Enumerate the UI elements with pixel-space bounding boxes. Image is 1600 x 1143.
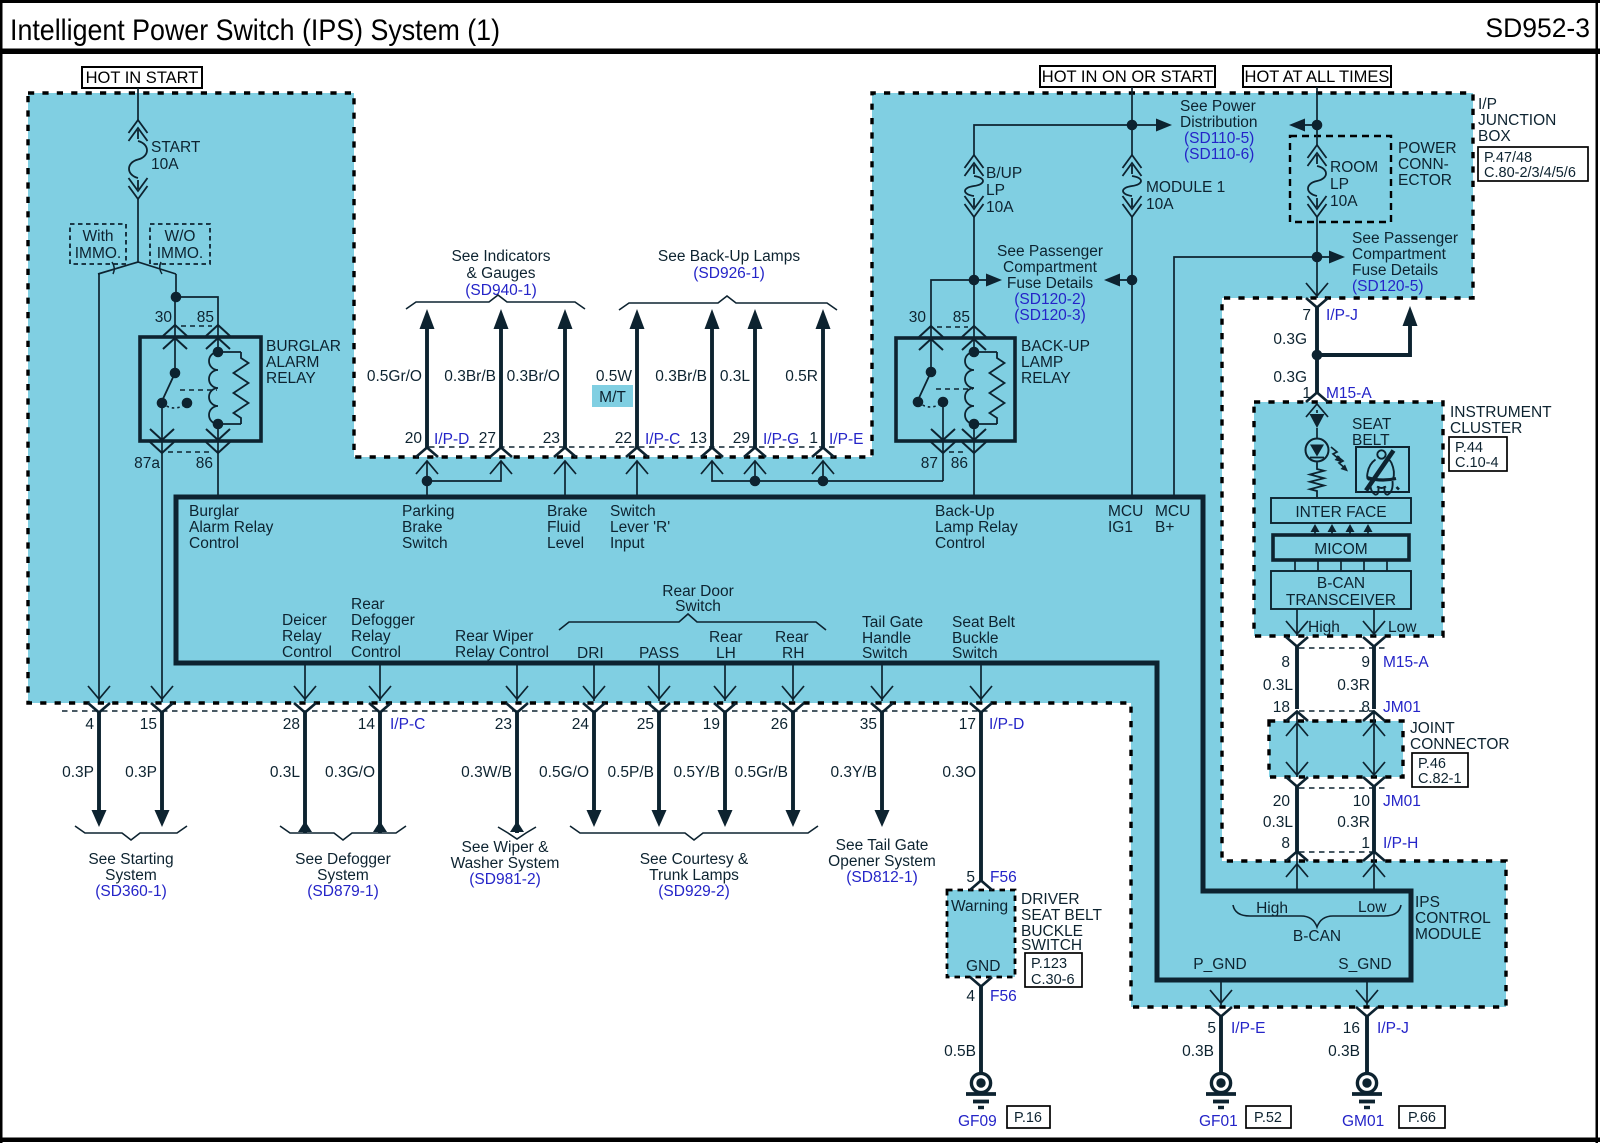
svg-text:GND: GND — [966, 958, 1000, 975]
svg-text:I/P-D: I/P-D — [434, 431, 469, 448]
svg-text:I/P-J: I/P-J — [1377, 1020, 1409, 1037]
brace starting system — [75, 826, 187, 840]
wire to courtesy lamps pin at x=594 — [592, 713, 596, 813]
svg-text:LH: LH — [716, 645, 736, 662]
svg-text:30: 30 — [155, 309, 173, 326]
burglar relay coil — [213, 347, 224, 358]
node back-up net junction 29 — [750, 476, 761, 487]
svg-text:(SD360-1): (SD360-1) — [95, 883, 167, 900]
svg-text:IG1: IG1 — [1108, 519, 1133, 536]
wire bay pin 29 (0.3L) — [748, 309, 763, 329]
svg-text:10: 10 — [1353, 793, 1371, 810]
svg-text:Rear: Rear — [775, 629, 809, 646]
arrow to see power distribution (right) — [1304, 124, 1317, 126]
wire W/O-IMMO branch to relay — [175, 274, 177, 297]
svg-text:P.16: P.16 — [1014, 1110, 1042, 1126]
svg-text:1: 1 — [809, 430, 818, 447]
wire branch up arrow to fuse details — [1317, 326, 1410, 355]
node SD120-5 junction — [1312, 252, 1323, 263]
B-CAN TRANSCEIVER box — [1271, 571, 1411, 609]
wire MODULE1 fuse to MCU IG1 — [1131, 217, 1133, 497]
svg-text:29: 29 — [733, 430, 750, 447]
burglar relay pin 30 — [163, 325, 187, 336]
svg-text:(SD981-2): (SD981-2) — [469, 871, 541, 888]
svg-text:LAMP: LAMP — [1021, 354, 1063, 371]
back-up relay top pin dashed strip — [937, 326, 968, 328]
diode symbol — [1316, 410, 1318, 413]
svg-text:INSTRUMENT: INSTRUMENT — [1450, 404, 1552, 421]
brace back-up lamps group — [619, 296, 837, 310]
svg-text:19: 19 — [703, 716, 720, 733]
svg-text:M15-A: M15-A — [1383, 654, 1429, 671]
brace courtesy lamps — [570, 826, 818, 840]
svg-text:See Starting: See Starting — [88, 851, 173, 868]
wire junction to pin 27 — [427, 462, 501, 481]
svg-text:IMMO.: IMMO. — [157, 245, 204, 262]
svg-text:Back-Up: Back-Up — [935, 503, 994, 520]
wire to starting system pin15 — [160, 713, 164, 813]
brace b-can — [1233, 905, 1401, 927]
svg-text:0.3Y/B: 0.3Y/B — [830, 764, 877, 781]
svg-text:P.52: P.52 — [1254, 1110, 1282, 1126]
svg-text:I/P-C: I/P-C — [390, 716, 425, 733]
svg-text:(SD110-6): (SD110-6) — [1184, 146, 1254, 163]
svg-text:RELAY: RELAY — [1021, 370, 1071, 387]
brace wiper system — [498, 827, 536, 839]
svg-text:(SD879-1): (SD879-1) — [307, 883, 379, 900]
svg-text:See Passenger: See Passenger — [997, 243, 1103, 260]
svg-text:8: 8 — [1361, 699, 1370, 716]
wire pin22 to switch lever R input — [636, 462, 638, 497]
svg-text:ECTOR: ECTOR — [1398, 172, 1452, 189]
svg-text:I/P-C: I/P-C — [645, 431, 680, 448]
interface-micom arrows — [1314, 531, 1316, 535]
svg-text:I/P-J: I/P-J — [1326, 307, 1358, 324]
node B/UP branch junction — [969, 275, 980, 286]
svg-text:& Gauges: & Gauges — [467, 265, 536, 282]
svg-text:0.3L: 0.3L — [270, 764, 301, 781]
wire bay pin 1 (0.5R) — [816, 309, 831, 329]
svg-text:Low: Low — [1388, 619, 1417, 636]
svg-text:20: 20 — [405, 430, 423, 447]
svg-text:MICOM: MICOM — [1314, 541, 1367, 558]
svg-text:0.3B: 0.3B — [1182, 1043, 1214, 1060]
svg-text:0.3P: 0.3P — [62, 764, 94, 781]
back-up relay resistor — [974, 351, 997, 353]
svg-text:Level: Level — [547, 535, 584, 552]
svg-text:23: 23 — [495, 716, 512, 733]
burglar relay top pin dashed strip — [181, 325, 212, 327]
svg-text:C.30-6: C.30-6 — [1031, 972, 1075, 988]
wire burglar 86 to IPS module (burglar alarm relay control) — [217, 454, 219, 497]
MICOM box — [1273, 535, 1409, 560]
wire branch to B/UP LP fuse — [974, 125, 1132, 155]
svg-text:Warning: Warning — [951, 898, 1008, 915]
svg-text:0.5G/O: 0.5G/O — [539, 764, 589, 781]
wire module output at x=380 — [379, 663, 381, 701]
wire back-up 86 to IPS module (back-up lamp relay control) — [973, 454, 975, 497]
svg-text:See Indicators: See Indicators — [451, 248, 550, 265]
node W/O branch junction — [171, 292, 182, 303]
svg-text:SD952-3: SD952-3 — [1485, 13, 1590, 43]
svg-text:SWITCH: SWITCH — [1021, 937, 1082, 954]
svg-text:0.3G/O: 0.3G/O — [325, 764, 375, 781]
svg-text:0.5Y/B: 0.5Y/B — [673, 764, 720, 781]
joint pin 20 crossing — [1286, 777, 1308, 787]
svg-text:0.3B: 0.3B — [1328, 1043, 1360, 1060]
back-up relay bottom pin dashed strip — [949, 451, 967, 453]
svg-text:15: 15 — [140, 716, 157, 733]
svg-text:See Power: See Power — [1180, 98, 1256, 115]
svg-text:28: 28 — [283, 716, 300, 733]
svg-text:C.80-2/3/4/5/6: C.80-2/3/4/5/6 — [1484, 165, 1576, 181]
svg-text:0.3L: 0.3L — [1263, 677, 1294, 694]
wire b-can low out — [1373, 609, 1375, 636]
ref box P.46 C.82-1 — [1412, 753, 1468, 787]
svg-text:High: High — [1308, 619, 1340, 636]
svg-text:See Courtesy &: See Courtesy & — [640, 851, 749, 868]
wire module output at x=981 — [980, 663, 982, 701]
svg-text:Alarm Relay: Alarm Relay — [189, 519, 274, 536]
svg-text:MCU: MCU — [1108, 503, 1143, 520]
page border frame — [0, 0, 1600, 3]
svg-text:Brake: Brake — [547, 503, 588, 520]
back-up lamp relay box — [896, 338, 1015, 441]
svg-text:System: System — [317, 867, 369, 884]
back-up relay pin 85 — [962, 326, 986, 337]
svg-text:0.3R: 0.3R — [1337, 677, 1370, 694]
svg-text:8: 8 — [1281, 654, 1290, 671]
svg-text:9: 9 — [1361, 654, 1370, 671]
wire SD120-5 junction to MCU B+ — [1174, 257, 1317, 497]
node module1 junction — [1127, 275, 1138, 286]
svg-text:86: 86 — [196, 455, 213, 472]
svg-text:0.3G: 0.3G — [1273, 331, 1307, 348]
svg-text:JUNCTION: JUNCTION — [1478, 112, 1556, 129]
wire module output at x=594 — [593, 663, 595, 701]
fuse ROOM LP 10A — [1308, 145, 1327, 158]
wire module output at x=305 — [304, 663, 306, 701]
svg-text:Compartment: Compartment — [1352, 246, 1447, 263]
cluster pin 8 crossing — [1286, 637, 1308, 647]
svg-text:IMMO.: IMMO. — [75, 245, 122, 262]
svg-text:87a: 87a — [134, 455, 160, 472]
power connector dashed border — [1290, 136, 1391, 222]
svg-text:Opener System: Opener System — [828, 853, 936, 870]
wire room fuse down — [1316, 217, 1318, 298]
svg-text:CONTROL: CONTROL — [1415, 910, 1491, 927]
svg-text:0.5Gr/B: 0.5Gr/B — [735, 764, 788, 781]
wire bay pin 13 (0.3Br/B) — [705, 309, 720, 329]
svg-text:MCU: MCU — [1155, 503, 1190, 520]
micom-bcan ticks — [1294, 560, 1296, 571]
svg-text:26: 26 — [771, 716, 788, 733]
svg-text:Control: Control — [189, 535, 239, 552]
svg-text:GF01: GF01 — [1199, 1113, 1238, 1130]
node room lp junction — [1312, 120, 1323, 131]
svg-text:4: 4 — [85, 716, 94, 733]
svg-text:P.47/48: P.47/48 — [1484, 150, 1532, 166]
svg-text:0.5B: 0.5B — [944, 1043, 976, 1060]
pin 4 F56 — [970, 977, 992, 987]
svg-text:BURGLAR: BURGLAR — [266, 338, 341, 355]
wire bay pin 22 (0.5W) — [630, 309, 645, 329]
svg-text:Compartment: Compartment — [1003, 259, 1098, 276]
ref box P.52 — [1246, 1106, 1291, 1128]
svg-text:Parking: Parking — [402, 503, 455, 520]
svg-text:Control: Control — [282, 644, 332, 661]
svg-text:MODULE: MODULE — [1415, 926, 1481, 943]
svg-text:Input: Input — [610, 535, 645, 552]
svg-text:GF09: GF09 — [958, 1113, 997, 1130]
wire module output at x=793 — [792, 663, 794, 701]
wire junction to burglar relay pin 85 — [176, 297, 218, 352]
svg-text:P.123: P.123 — [1031, 956, 1067, 972]
svg-text:W/O: W/O — [165, 228, 196, 245]
joint connector shaded region — [1269, 721, 1403, 777]
svg-text:ALARM: ALARM — [266, 354, 319, 371]
svg-text:25: 25 — [637, 716, 654, 733]
svg-text:22: 22 — [615, 430, 632, 447]
svg-text:0.3O: 0.3O — [942, 764, 976, 781]
wire to courtesy lamps pin at x=793 — [791, 713, 795, 813]
svg-text:System: System — [105, 867, 157, 884]
svg-text:F56: F56 — [990, 988, 1017, 1005]
svg-text:CONNECTOR: CONNECTOR — [1410, 736, 1510, 753]
HOT IN START label box — [82, 67, 202, 88]
svg-text:TRANSCEIVER: TRANSCEIVER — [1286, 592, 1396, 609]
instrument cluster dashed border — [1254, 402, 1443, 636]
brace rear door switch — [559, 614, 826, 630]
svg-text:Defogger: Defogger — [351, 612, 415, 629]
svg-text:Intelligent Power Switch (IPS): Intelligent Power Switch (IPS) System (1… — [10, 14, 500, 47]
svg-text:B+: B+ — [1155, 519, 1174, 536]
svg-text:Switch: Switch — [675, 598, 721, 615]
svg-text:(SD120-2): (SD120-2) — [1014, 291, 1086, 308]
svg-text:See Wiper &: See Wiper & — [461, 839, 549, 856]
svg-text:CLUSTER: CLUSTER — [1450, 420, 1522, 437]
svg-text:(SD120-5): (SD120-5) — [1352, 278, 1424, 295]
svg-text:Lever 'R': Lever 'R' — [610, 519, 670, 536]
svg-text:85: 85 — [197, 309, 214, 326]
svg-text:Relay: Relay — [282, 628, 322, 645]
svg-text:Relay: Relay — [351, 628, 391, 645]
fuse START 10A — [129, 120, 148, 133]
svg-text:0.3Br/B: 0.3Br/B — [655, 368, 707, 385]
brace indicators group — [406, 295, 585, 309]
connector row JM01 lower dashed — [1299, 787, 1388, 789]
svg-text:JOINT: JOINT — [1410, 720, 1455, 737]
wire to tail gate opener pin35 — [880, 713, 884, 813]
wire bay pin 27 (0.3Br/B) — [494, 309, 509, 329]
svg-text:I/P-G: I/P-G — [763, 431, 799, 448]
fuse MODULE1 10A — [1123, 155, 1142, 168]
ref box P.44 C.10-4 — [1449, 437, 1507, 471]
svg-text:B/UP: B/UP — [986, 165, 1022, 182]
wire b-can high out — [1296, 609, 1298, 636]
node back-up net junction 1 — [818, 476, 829, 487]
wire burglar 87a down to pin 15 — [161, 454, 163, 702]
svg-text:Switch: Switch — [610, 503, 656, 520]
svg-text:Control: Control — [935, 535, 985, 552]
wire With-IMMO branch down to pin 4 — [98, 274, 100, 702]
ground GF01 — [1211, 1073, 1230, 1092]
svg-text:Fluid: Fluid — [547, 519, 581, 536]
svg-text:JM01: JM01 — [1383, 793, 1421, 810]
svg-text:(SD120-3): (SD120-3) — [1014, 307, 1086, 324]
svg-text:SEAT BELT: SEAT BELT — [1021, 907, 1103, 924]
svg-text:GM01: GM01 — [1342, 1113, 1384, 1130]
svg-text:B-CAN: B-CAN — [1317, 575, 1365, 592]
svg-text:27: 27 — [479, 430, 496, 447]
svg-text:7: 7 — [1302, 307, 1311, 324]
burglar relay pin 87a — [161, 403, 163, 454]
svg-text:Rear Wiper: Rear Wiper — [455, 628, 533, 645]
wire 0.3L cluster-joint — [1295, 647, 1299, 710]
wire S_GND out — [1366, 980, 1368, 1006]
wire fuse START to IMMO fork — [137, 199, 139, 262]
wire 0.3L joint-module — [1295, 787, 1299, 853]
wire bay pin 20 (0.5Gr/O) — [420, 309, 435, 329]
svg-text:P.66: P.66 — [1408, 1110, 1436, 1126]
svg-text:START: START — [151, 139, 201, 156]
svg-text:Rear: Rear — [351, 596, 385, 613]
burglar relay resistor — [218, 351, 241, 353]
svg-text:30: 30 — [909, 309, 927, 326]
svg-text:Fuse Details: Fuse Details — [1007, 275, 1093, 292]
ground GM01 — [1357, 1073, 1376, 1092]
svg-text:Fuse Details: Fuse Details — [1352, 262, 1438, 279]
driver seat belt buckle switch shaded region — [947, 890, 1015, 977]
svg-text:DRIVER: DRIVER — [1021, 891, 1080, 908]
wire to defogger system pin14 — [378, 713, 382, 834]
wire to defogger system pin28 — [303, 713, 307, 834]
svg-text:8: 8 — [1281, 835, 1290, 852]
svg-text:0.5R: 0.5R — [785, 368, 818, 385]
svg-text:14: 14 — [358, 716, 376, 733]
wire B/UP fuse to back-up relay pin 85 — [973, 217, 975, 352]
svg-text:I/P-E: I/P-E — [1231, 1020, 1265, 1037]
svg-text:0.3W/B: 0.3W/B — [461, 764, 512, 781]
svg-text:5: 5 — [966, 869, 975, 886]
joint connector internal wires — [1296, 712, 1298, 778]
M/T highlight chip — [592, 385, 633, 407]
svg-text:Low: Low — [1358, 899, 1387, 916]
pin 7 I/P-J crossing — [1306, 283, 1328, 296]
svg-text:0.3L: 0.3L — [720, 368, 751, 385]
svg-text:P.46: P.46 — [1418, 756, 1446, 772]
wire from HOT IN START to fuse START — [137, 88, 139, 120]
svg-text:LP: LP — [1330, 176, 1349, 193]
svg-text:CONN-: CONN- — [1398, 156, 1449, 173]
fuse B/UP LP 10A — [965, 155, 984, 168]
svg-text:0.3G: 0.3G — [1273, 369, 1307, 386]
svg-text:0.5W: 0.5W — [596, 368, 633, 385]
wire P_GND out — [1220, 980, 1222, 1006]
svg-text:35: 35 — [860, 716, 877, 733]
svg-text:P_GND: P_GND — [1193, 956, 1246, 973]
cluster feed pin crossing — [1306, 393, 1328, 403]
svg-text:IPS: IPS — [1415, 894, 1440, 911]
svg-text:BOX: BOX — [1478, 128, 1511, 145]
svg-text:ROOM: ROOM — [1330, 159, 1378, 176]
I/P junction box main shaded region — [28, 93, 1506, 1007]
wire pin15 crossing — [151, 686, 173, 699]
svg-text:Deicer: Deicer — [282, 612, 327, 629]
wire low into IPS module — [1373, 852, 1375, 892]
svg-text:HOT IN ON OR START: HOT IN ON OR START — [1042, 68, 1213, 86]
back-up relay pin 30 — [919, 326, 943, 337]
burglar relay pin 86 — [217, 424, 219, 454]
svg-text:F56: F56 — [990, 869, 1017, 886]
svg-text:17: 17 — [959, 716, 976, 733]
svg-text:Seat Belt: Seat Belt — [952, 614, 1016, 631]
svg-text:86: 86 — [951, 455, 968, 472]
svg-text:Switch: Switch — [862, 645, 908, 662]
svg-text:Distribution: Distribution — [1180, 114, 1258, 131]
HOT AT ALL TIMES label box — [1243, 66, 1391, 87]
svg-text:Rear: Rear — [709, 629, 743, 646]
arrow to passenger fuse details left — [974, 279, 987, 281]
svg-text:RELAY: RELAY — [266, 370, 316, 387]
wire 0.3G to cluster — [1315, 308, 1319, 394]
wire bay pin 23 (0.3Br/O) — [558, 309, 573, 329]
wire pin23 to brake fluid input — [564, 462, 566, 497]
svg-text:10A: 10A — [151, 156, 179, 173]
burglar relay switch — [170, 368, 181, 379]
svg-text:SEAT: SEAT — [1352, 416, 1392, 433]
svg-text:Switch: Switch — [402, 535, 448, 552]
IPS control module box — [176, 497, 1411, 980]
svg-text:LP: LP — [986, 182, 1005, 199]
svg-text:(SD926-1): (SD926-1) — [693, 265, 765, 282]
main region dashed border — [28, 93, 1506, 1007]
svg-text:16: 16 — [1343, 1020, 1360, 1037]
wire pin4 crossing — [88, 686, 110, 699]
svg-text:BACK-UP: BACK-UP — [1021, 338, 1090, 355]
svg-text:0.5P/B: 0.5P/B — [607, 764, 654, 781]
INTER FACE box — [1271, 498, 1411, 523]
svg-text:10A: 10A — [1146, 196, 1174, 213]
W/O IMMO. option box — [150, 224, 210, 264]
svg-text:C.82-1: C.82-1 — [1418, 771, 1462, 787]
connector row M15-A dashed — [1299, 647, 1388, 649]
svg-text:High: High — [1256, 900, 1288, 917]
cluster pin 9 crossing — [1363, 637, 1385, 647]
wire to wiper system pin23 — [515, 713, 519, 834]
back-up relay pin 86 — [973, 424, 975, 454]
wire pin20 to parking brake input — [426, 462, 428, 497]
ref box P.66 — [1399, 1106, 1445, 1128]
back-up relay switch — [926, 367, 937, 378]
svg-text:M15-A: M15-A — [1326, 385, 1372, 402]
wire pin17 to buckle switch — [979, 713, 983, 882]
wire branch to back-up relay pin 30 — [931, 280, 974, 372]
svg-text:DRI: DRI — [577, 645, 604, 662]
svg-text:With: With — [83, 228, 114, 245]
svg-text:1: 1 — [1361, 835, 1370, 852]
wire to ground GF01 — [1219, 1017, 1223, 1074]
wire back-up lamps net (relay 87 to pins 13/29/1) — [712, 462, 943, 481]
back-up relay coil — [969, 347, 980, 358]
connector row I/P-H — [1286, 852, 1308, 862]
arrow to passenger fuse details SD120-5 — [1317, 256, 1330, 258]
svg-text:See Back-Up Lamps: See Back-Up Lamps — [658, 248, 800, 265]
driver seat belt buckle switch dashed border — [947, 890, 1015, 977]
svg-text:INTER FACE: INTER FACE — [1295, 504, 1386, 521]
back-up relay switch-coil link — [936, 388, 973, 390]
svg-text:(SD812-1): (SD812-1) — [846, 869, 918, 886]
